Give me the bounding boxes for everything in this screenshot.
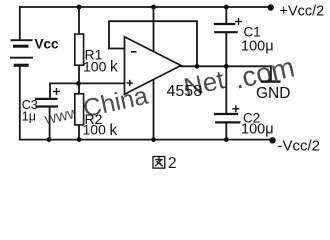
capacitor C3 plus sign <box>53 88 60 95</box>
wire feedback loop <box>109 21 197 66</box>
svg-text:+Vcc/2: +Vcc/2 <box>280 4 325 20</box>
resistor R2 <box>75 94 84 125</box>
op-amp minus input symbol <box>131 51 137 53</box>
capacitor C1 plus sign <box>235 18 242 25</box>
wire top rail <box>20 6 270 8</box>
capacitor C1 <box>214 24 238 32</box>
svg-text:1μ: 1μ <box>22 110 36 124</box>
node V- bottom <box>151 137 156 142</box>
svg-text:2: 2 <box>168 155 177 172</box>
node C1 C2 <box>224 64 229 69</box>
svg-text:C1: C1 <box>244 25 261 40</box>
svg-text:k: k <box>110 122 118 139</box>
wire op-amp V+ pin <box>153 7 155 53</box>
battery Vcc <box>10 40 33 67</box>
svg-text:100: 100 <box>83 122 107 138</box>
svg-text:GND: GND <box>256 85 290 102</box>
svg-text:100μ: 100μ <box>241 122 274 138</box>
node mid divider <box>76 81 81 86</box>
capacitor C3 <box>35 99 58 107</box>
svg-text:k: k <box>110 59 118 76</box>
wire C2 bottom <box>225 123 227 140</box>
terminal -Vcc/2 <box>269 137 275 143</box>
node C2 bottom <box>224 137 229 142</box>
wire output <box>181 65 271 67</box>
wire left column bottom <box>19 67 21 140</box>
wire op-amp V- pin <box>153 80 155 140</box>
wire C1 bottom <box>225 33 227 66</box>
node C1 rail <box>224 5 229 10</box>
svg-text:4558: 4558 <box>167 83 203 100</box>
op-amp U1 4558 <box>125 37 182 94</box>
svg-text:100: 100 <box>83 58 107 74</box>
wire left column top <box>19 7 21 39</box>
wire C1 top <box>225 7 227 24</box>
node V+ rail <box>151 5 156 10</box>
resistor R1 <box>75 34 84 65</box>
node R2 bottom <box>77 137 82 142</box>
svg-text:100μ: 100μ <box>241 39 274 55</box>
wire bottom rail <box>20 139 272 141</box>
wire R2 bottom <box>78 125 80 140</box>
wire C3 top drop <box>49 83 51 98</box>
wire C3 bottom <box>49 108 51 140</box>
wire R2 top <box>78 83 80 93</box>
wire C2 top <box>225 66 227 113</box>
watermark <box>40 49 297 137</box>
svg-text:-Vcc/2: -Vcc/2 <box>278 137 321 154</box>
svg-text:Vcc: Vcc <box>35 37 60 52</box>
node output feedback <box>195 64 200 69</box>
wire R1 top <box>78 7 80 34</box>
wire mid horizontal to op-amp + input <box>50 82 125 84</box>
op-amp plus input symbol <box>127 80 133 86</box>
ground symbol <box>261 80 281 82</box>
node R1 top <box>77 5 82 10</box>
capacitor C2 plus sign <box>232 105 239 112</box>
terminal +Vcc/2 <box>268 4 274 10</box>
capacitor C2 <box>214 114 241 122</box>
wire R1 bottom to mid node <box>78 65 80 83</box>
node C3 bottom <box>47 137 52 142</box>
wire GND drop <box>270 66 272 80</box>
caption figure 2 glyph <box>153 157 165 169</box>
